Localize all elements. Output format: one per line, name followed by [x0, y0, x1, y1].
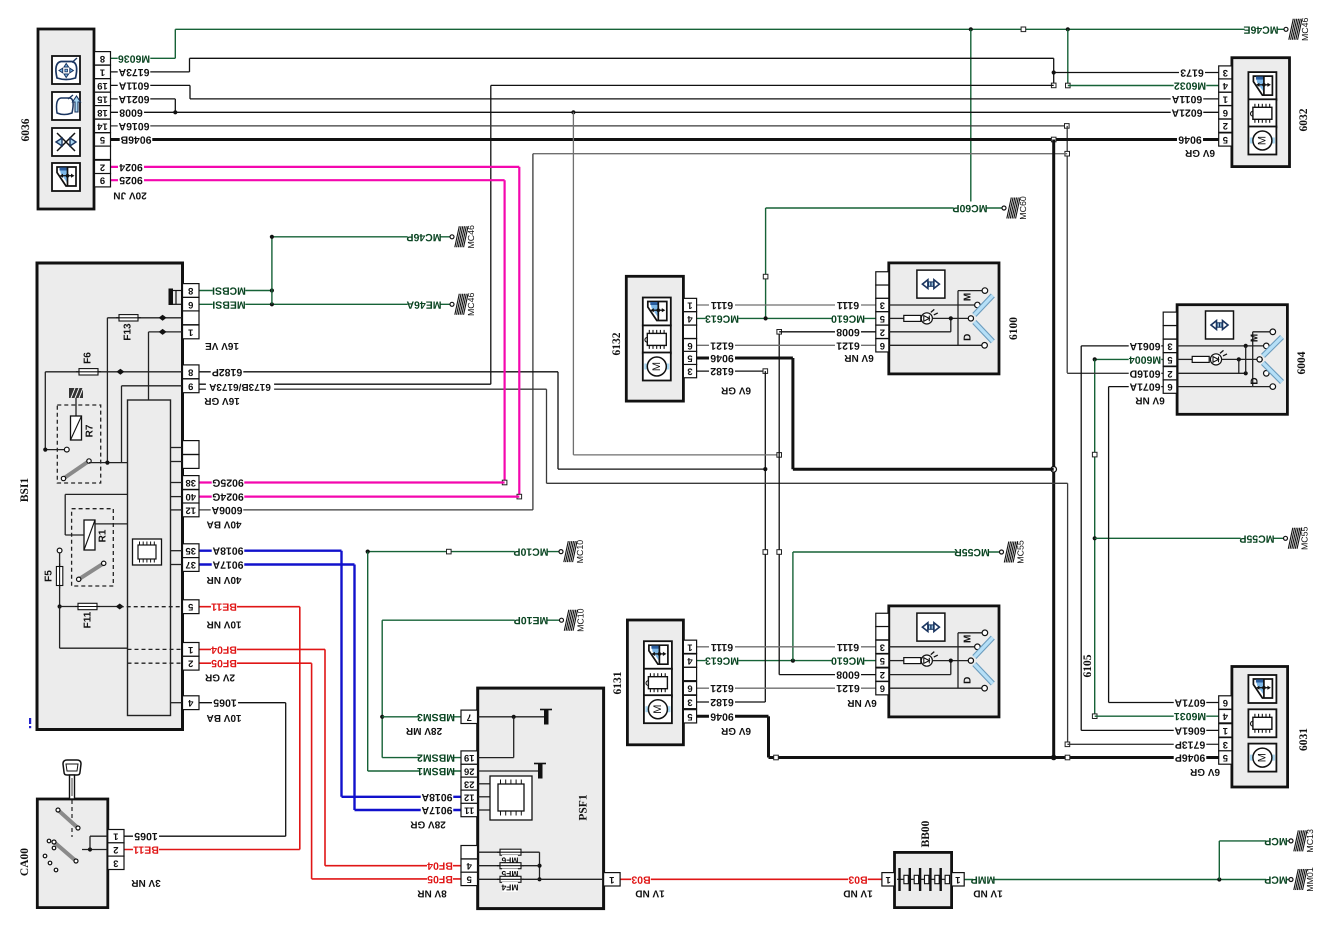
fuse F11 (BSI1)	[60, 603, 183, 663]
label MF6	[502, 855, 518, 865]
svg-text:MC55R: MC55R	[954, 546, 990, 558]
svg-text:ME10P: ME10P	[514, 614, 548, 626]
label 6008 (6100)	[835, 325, 861, 337]
svg-text:6016D: 6016D	[1129, 367, 1160, 379]
label 6021A (left)	[118, 92, 151, 104]
svg-text:16V GR: 16V GR	[203, 395, 239, 406]
svg-text:1V ND: 1V ND	[635, 888, 664, 899]
wire MCBSI (green)	[199, 288, 274, 292]
wire MC613 / MC610 (lower green)	[697, 659, 876, 663]
label BF04 (PSF1)	[427, 859, 453, 871]
svg-text:14: 14	[97, 120, 108, 131]
svg-text:6173: 6173	[1180, 67, 1204, 79]
wire MC55R (green)	[793, 552, 1000, 661]
svg-text:9024G: 9024G	[212, 491, 244, 503]
BSI1 internal ground icon (pins 8/6)	[169, 289, 183, 306]
label 1065 (CA00)	[133, 830, 159, 842]
label 9025	[118, 174, 144, 186]
svg-text:MC55P: MC55P	[1239, 532, 1274, 544]
svg-text:6: 6	[1223, 107, 1228, 118]
svg-text:M: M	[1256, 753, 1268, 762]
svg-text:R1: R1	[98, 529, 109, 542]
component 6004 (mirror unit right)	[1177, 305, 1287, 415]
label 6713P	[1174, 738, 1207, 750]
wire 6016A / 6016D / 6006A chain	[111, 124, 1163, 510]
svg-text:3: 3	[687, 366, 692, 377]
svg-text:MC55: MC55	[1300, 526, 1310, 550]
svg-text:28V MR: 28V MR	[405, 725, 442, 736]
svg-text:MF4: MF4	[501, 882, 518, 892]
ground MC13	[1289, 829, 1315, 853]
wire 6008 branch (gray, to mirrors)	[573, 112, 875, 674]
6100 internal circuit	[889, 288, 993, 348]
label MBSM2	[420, 751, 453, 763]
label MCP lower	[1266, 873, 1286, 885]
svg-text:M: M	[1250, 334, 1261, 342]
svg-text:9: 9	[100, 175, 105, 186]
wire MEBSI / ME46A (green)	[199, 237, 450, 307]
connector pins CA00	[108, 830, 124, 870]
svg-text:6100: 6100	[1008, 317, 1020, 340]
svg-text:6: 6	[880, 683, 885, 694]
BSI1 pin9 internal wire	[122, 386, 183, 463]
wire 9024 / 9024G (magenta)	[111, 167, 522, 499]
BSI1 pin stub wires	[171, 448, 183, 703]
wire M6036 / MC46E (green ground line)	[111, 27, 1285, 58]
svg-text:4: 4	[687, 655, 693, 666]
label 1065 (BSI1)	[212, 696, 238, 708]
svg-text:40: 40	[185, 491, 196, 502]
component CA00 (ignition switch)	[37, 799, 108, 908]
wire B03 (red)	[620, 878, 882, 880]
connector pins PSF1	[461, 710, 620, 886]
svg-text:6032: 6032	[1298, 108, 1310, 131]
svg-text:1: 1	[99, 66, 105, 77]
svg-text:MC10: MC10	[575, 540, 585, 564]
label 6111 (6131)	[709, 640, 735, 652]
label M6031	[1174, 710, 1207, 722]
svg-text:28V GR: 28V GR	[409, 819, 445, 830]
svg-text:1: 1	[187, 644, 193, 655]
svg-text:38: 38	[185, 477, 196, 488]
wire 6061A	[1081, 346, 1219, 731]
svg-text:6061A: 6061A	[1129, 340, 1160, 352]
PSF1 pin7 internal wire + ground	[478, 710, 552, 758]
icon chip (6031)	[1248, 709, 1276, 737]
icon window (6131)	[644, 641, 672, 669]
svg-text:BF04: BF04	[427, 860, 453, 872]
wire 6173A (6036 pin1 to 6032 pin3 via BSI1)	[111, 58, 1219, 384]
label 6016A	[118, 119, 151, 131]
svg-text:6131: 6131	[612, 671, 624, 694]
wire M6004 / MC55P / M6031 (green chain)	[1092, 357, 1284, 718]
label 6061A (6004)	[1129, 339, 1162, 351]
svg-text:2: 2	[113, 844, 118, 855]
label 9046 (6131)	[709, 710, 735, 722]
label 9046P	[1174, 751, 1207, 763]
svg-text:6071A: 6071A	[1174, 697, 1205, 709]
svg-text:19: 19	[464, 752, 475, 763]
svg-text:2: 2	[188, 658, 193, 669]
label M6004	[1129, 353, 1162, 365]
svg-text:6071A: 6071A	[1129, 381, 1160, 393]
svg-text:5: 5	[879, 313, 885, 324]
svg-text:B03: B03	[848, 873, 867, 885]
wire MC10P (green)	[366, 549, 560, 771]
label 6071A (6031)	[1174, 696, 1207, 708]
6105 internal circuit	[889, 630, 993, 691]
wire 6111 lower (gray)	[697, 646, 876, 648]
wire 6071A	[1109, 387, 1219, 703]
svg-text:6713P: 6713P	[1175, 738, 1205, 750]
svg-text:6: 6	[1167, 381, 1172, 392]
ground MC46 (top right)	[1284, 17, 1310, 41]
svg-text:MC10: MC10	[576, 608, 586, 632]
svg-text:19: 19	[97, 80, 108, 91]
icon window (6032)	[1248, 72, 1276, 100]
svg-text:6V GR: 6V GR	[720, 385, 751, 396]
icon chip (6132)	[643, 325, 671, 353]
svg-text:F11: F11	[83, 611, 94, 628]
svg-text:MBSM2: MBSM2	[417, 752, 455, 764]
PSF1 pin26 internal ground	[478, 764, 546, 779]
label B03 (BB00)	[848, 873, 868, 885]
svg-text:M: M	[963, 635, 974, 643]
label 9046 (6132)	[709, 351, 735, 363]
svg-text:M: M	[963, 293, 974, 301]
label 6182 (6132)	[709, 365, 735, 377]
svg-text:10V NR: 10V NR	[206, 619, 242, 630]
fuse F13 (BSI1)	[107, 315, 182, 463]
connector pins BSI1	[183, 284, 200, 710]
svg-text:5: 5	[687, 711, 693, 722]
wire MBSM1 (green)	[368, 770, 461, 772]
label MC46E	[1245, 23, 1278, 35]
svg-text:PSF1: PSF1	[578, 794, 590, 820]
svg-text:M6032: M6032	[1174, 80, 1206, 92]
connector pins 6105	[876, 613, 889, 695]
svg-text:CA00: CA00	[19, 848, 31, 876]
svg-text:9025G: 9025G	[212, 477, 244, 489]
label ME10P	[515, 614, 548, 626]
label 6071A (6004)	[1129, 380, 1162, 392]
svg-text:M: M	[1256, 136, 1268, 145]
label BE11 (CA00)	[133, 843, 159, 855]
wire 6173B (to 6031 pin3)	[199, 389, 1219, 746]
label ME46A	[408, 298, 441, 310]
svg-text:8: 8	[100, 53, 105, 64]
icon chip (6131)	[644, 669, 672, 697]
svg-text:6111: 6111	[837, 641, 859, 653]
icon motor (6032)	[1248, 127, 1276, 155]
icon window (6036)	[52, 163, 80, 191]
svg-text:MC46E: MC46E	[1243, 23, 1278, 35]
label 6111 (6132)	[709, 298, 735, 310]
svg-text:MC610: MC610	[831, 312, 865, 324]
svg-text:6006A: 6006A	[211, 504, 242, 516]
label 6011A (left)	[118, 79, 151, 91]
svg-text:9025: 9025	[119, 174, 143, 186]
label MMP	[973, 873, 993, 885]
svg-text:3: 3	[880, 300, 885, 311]
label 9018A (PSF1)	[421, 790, 454, 802]
6004 internal circuit	[1177, 329, 1282, 389]
svg-text:12: 12	[464, 791, 475, 802]
ground MC10 (MC10P)	[559, 540, 585, 564]
label M6032	[1174, 79, 1207, 91]
wire MC613 / MC610 (upper green)	[697, 316, 876, 320]
svg-text:23: 23	[464, 778, 475, 789]
fuse MF4 (PSF1)	[478, 876, 604, 882]
relay R7 (BSI1)	[43, 388, 127, 483]
svg-text:6011A: 6011A	[1171, 93, 1202, 105]
svg-text:MC613: MC613	[705, 655, 739, 667]
ground MC46 (MC46P)	[450, 225, 476, 249]
label 6182P	[211, 365, 244, 377]
svg-text:6111: 6111	[711, 299, 733, 311]
svg-text:18: 18	[97, 107, 108, 118]
svg-text:6121: 6121	[710, 682, 734, 694]
wire 9025 / 9025G (magenta)	[111, 180, 507, 485]
BSI1 internal chip icon	[133, 539, 162, 565]
svg-text:1V ND: 1V ND	[973, 888, 1002, 899]
fuse MF6 (PSF1)	[478, 849, 542, 881]
wire BF04 (red)	[199, 649, 461, 865]
icon mirror-adjust (6036)	[52, 56, 80, 84]
svg-text:6: 6	[687, 340, 692, 351]
svg-text:16V VE: 16V VE	[205, 340, 239, 351]
wire 6111 upper (gray)	[697, 304, 876, 306]
svg-text:D: D	[963, 334, 974, 341]
svg-text:6V GR: 6V GR	[1189, 766, 1220, 777]
svg-text:ME46A: ME46A	[406, 298, 441, 310]
label 6173A (left)	[118, 65, 151, 77]
label 9017A (BSI1)	[212, 558, 245, 570]
svg-text:9024: 9024	[119, 161, 143, 173]
wire 9017A (blue)	[199, 565, 461, 811]
connector pins 6004	[1163, 312, 1177, 393]
svg-text:MC10P: MC10P	[513, 546, 548, 558]
svg-text:6: 6	[880, 340, 885, 351]
component 6131 (front right window module)	[627, 620, 683, 745]
connector pins 6031	[1219, 696, 1232, 764]
component 6105 (passenger mirror unit)	[889, 606, 999, 717]
label MBSM3	[420, 710, 453, 722]
svg-text:M6004: M6004	[1129, 353, 1161, 365]
icon mirror-up (6036)	[52, 92, 81, 120]
svg-text:6V NR: 6V NR	[1134, 395, 1164, 406]
label MF4	[502, 882, 518, 892]
svg-text:6121: 6121	[836, 339, 860, 351]
icon motor (6031)	[1248, 744, 1276, 772]
label MC610 upper	[832, 312, 865, 324]
svg-text:5: 5	[1167, 354, 1173, 365]
svg-text:5: 5	[187, 601, 193, 612]
component PSF1 (engine fuse box)	[478, 688, 604, 909]
svg-text:2V GR: 2V GR	[204, 672, 235, 683]
component 6032 (rear left window module)	[1232, 58, 1290, 167]
component BSI1 (body control unit)	[37, 263, 183, 730]
svg-text:6182: 6182	[710, 365, 734, 377]
svg-text:1: 1	[687, 300, 693, 311]
svg-text:6016A: 6016A	[118, 120, 149, 132]
icon mirror-fold (6036)	[52, 128, 80, 156]
label 6173B/6173A	[206, 380, 274, 392]
battery cells icon (BB00)	[897, 868, 950, 891]
svg-text:5: 5	[1222, 134, 1228, 145]
label MCP upper	[1266, 834, 1286, 846]
svg-text:M6036: M6036	[118, 52, 150, 64]
label 6021A (right)	[1171, 106, 1204, 118]
BSI1 inner module rectangle	[128, 400, 171, 716]
svg-text:6: 6	[1223, 697, 1228, 708]
svg-text:6182: 6182	[710, 696, 734, 708]
connector pins 6132	[683, 298, 696, 377]
svg-text:M6031: M6031	[1174, 710, 1206, 722]
svg-text:MC46P: MC46P	[406, 231, 441, 243]
component BB00 (battery)	[895, 852, 952, 907]
svg-text:6: 6	[687, 683, 692, 694]
BSI1 pin1 internal wire	[149, 329, 183, 400]
svg-text:6031: 6031	[1298, 728, 1310, 751]
svg-text:3V NR: 3V NR	[130, 877, 160, 888]
svg-text:D: D	[963, 677, 974, 684]
svg-text:4: 4	[687, 313, 693, 324]
svg-text:5: 5	[1222, 752, 1228, 763]
svg-text:3: 3	[687, 697, 692, 708]
svg-text:9046: 9046	[710, 352, 734, 364]
svg-text:MCP: MCP	[1264, 835, 1287, 847]
svg-text:40V BA: 40V BA	[206, 519, 241, 530]
icon mirror-arrows (6105)	[917, 613, 945, 641]
svg-text:6021A: 6021A	[1171, 106, 1202, 118]
svg-text:6008: 6008	[836, 326, 860, 338]
svg-text:6011A: 6011A	[118, 79, 149, 91]
wire 6121 lower (gray)	[697, 687, 876, 689]
label 9017A (PSF1)	[421, 803, 454, 815]
svg-text:3: 3	[113, 857, 118, 868]
svg-text:MEBSI: MEBSI	[212, 298, 245, 310]
ground MC55 (MC55P)	[1284, 526, 1310, 550]
label MC613 upper	[706, 312, 739, 324]
fuse F5 (BSI1)	[56, 548, 62, 609]
label 6008 (left)	[118, 106, 144, 118]
svg-text:1: 1	[1222, 93, 1228, 104]
svg-text:MC13: MC13	[1305, 829, 1315, 853]
svg-text:5: 5	[687, 353, 693, 364]
svg-text:MC60: MC60	[1018, 196, 1028, 220]
svg-text:5: 5	[466, 873, 472, 884]
label MC60P	[954, 201, 987, 213]
key icon (CA00)	[63, 760, 81, 799]
svg-text:MCP: MCP	[1264, 874, 1287, 886]
label MEBSI	[213, 298, 246, 310]
icon chip (6032)	[1248, 99, 1276, 127]
svg-text:15: 15	[97, 93, 108, 104]
connector pins 6036	[95, 52, 111, 187]
svg-text:6121: 6121	[710, 339, 734, 351]
svg-text:10V BA: 10V BA	[206, 712, 241, 723]
label 6016D	[1129, 367, 1162, 379]
svg-text:20V JN: 20V JN	[113, 190, 146, 201]
svg-text:8: 8	[188, 366, 193, 377]
svg-text:6V NR: 6V NR	[843, 352, 873, 363]
svg-text:6V GR: 6V GR	[720, 725, 751, 736]
label MC55R	[956, 545, 989, 557]
svg-text:1: 1	[187, 326, 193, 337]
wire 6182 / 6182P	[199, 369, 768, 702]
wire 6021A / 6008 (long top line)	[111, 99, 1219, 115]
svg-text:BF05: BF05	[427, 873, 453, 885]
connector pins 6032	[1219, 66, 1232, 146]
svg-text:4: 4	[466, 860, 472, 871]
svg-text:1: 1	[687, 641, 693, 652]
svg-text:5: 5	[879, 655, 885, 666]
connector pins BB00	[882, 873, 964, 886]
svg-text:BE11: BE11	[211, 601, 237, 613]
svg-text:M: M	[651, 362, 663, 371]
wire MC60P (green)	[763, 29, 1003, 318]
svg-text:1065: 1065	[213, 697, 237, 709]
svg-text:2: 2	[100, 161, 105, 172]
icon motor (6131)	[644, 695, 672, 723]
label MBSM1	[420, 764, 453, 776]
svg-text:1: 1	[113, 831, 119, 842]
svg-text:1: 1	[608, 874, 614, 885]
svg-text:BE11: BE11	[133, 844, 159, 856]
svg-text:4: 4	[1222, 711, 1228, 722]
svg-text:BF05: BF05	[211, 657, 237, 669]
component 6132 (front left window module)	[626, 276, 683, 401]
svg-text:MC46: MC46	[1300, 17, 1310, 41]
label 6061A (6031)	[1174, 724, 1207, 736]
svg-text:6173A: 6173A	[118, 66, 149, 78]
icon mirror-arrows (6004)	[1206, 311, 1234, 339]
PSF1 internal chip icon	[478, 776, 532, 820]
label B03 (PSF1)	[631, 873, 651, 885]
svg-text:2: 2	[1223, 120, 1228, 131]
svg-text:26: 26	[464, 766, 475, 777]
svg-text:40V NR: 40V NR	[206, 574, 242, 585]
svg-text:4: 4	[1222, 80, 1228, 91]
svg-text:MC46: MC46	[466, 225, 476, 249]
svg-text:MC55: MC55	[1016, 540, 1026, 564]
svg-text:6008: 6008	[836, 669, 860, 681]
svg-text:6111: 6111	[711, 641, 733, 653]
svg-text:1: 1	[885, 874, 891, 885]
svg-text:3: 3	[1167, 340, 1172, 351]
svg-text:8: 8	[188, 285, 193, 296]
label 9024	[118, 160, 144, 172]
label MC610 lower	[832, 654, 865, 666]
ground MC46 (ME46A)	[450, 292, 476, 316]
label 6121 (6100)	[835, 339, 861, 351]
svg-text:2: 2	[880, 669, 885, 680]
relay R1 (BSI1)	[65, 494, 127, 586]
svg-text:9046B: 9046B	[120, 134, 151, 146]
CA00 internals	[43, 800, 108, 872]
svg-text:37: 37	[185, 559, 196, 570]
icon mirror-arrows (6100)	[917, 270, 945, 298]
icon motor (6132)	[643, 353, 671, 381]
label 6121 (6132)	[709, 339, 735, 351]
ground MM01	[1289, 867, 1315, 892]
wire 9018A (blue)	[199, 551, 461, 797]
wire MMP / MCP (green)	[964, 841, 1289, 882]
label 6111 (6100)	[835, 298, 861, 310]
svg-text:9018A: 9018A	[421, 791, 452, 803]
wire ME10P (green)	[380, 620, 560, 757]
